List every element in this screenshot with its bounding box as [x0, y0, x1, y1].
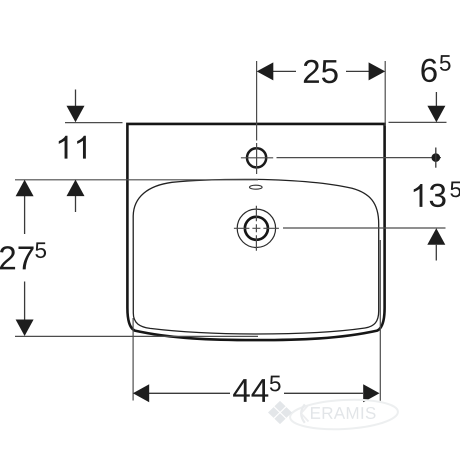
label 13 sup 5	[450, 182, 460, 198]
terminator dot tick	[435, 148, 437, 168]
drain outer circle	[237, 209, 275, 247]
dim 6.5 arrow down	[435, 92, 437, 107]
overflow slot	[250, 185, 263, 189]
terminator dot	[432, 153, 441, 162]
bottom extension line (dim 27.5)	[15, 335, 258, 337]
watermark ellipse swoosh	[289, 397, 398, 432]
drain center mark horizontal	[234, 227, 279, 229]
dim 25 arrow left	[257, 62, 274, 80]
dim 27.5 arrow down	[24, 282, 26, 321]
faucet crosshair horizontal	[241, 157, 273, 159]
bowl rim extension line left	[15, 179, 258, 181]
drain center mark vertical	[255, 206, 257, 251]
label 44 sup 5	[270, 376, 281, 392]
dim 44.5 dimension line	[134, 392, 363, 394]
drain inner circle	[245, 217, 268, 240]
faucet centerline vertical (also ext line of dim 25)	[256, 61, 258, 174]
label 13	[414, 184, 446, 208]
label 44	[233, 379, 268, 402]
dim 25 dimension line	[258, 70, 384, 72]
dim 13.5 arrow up	[435, 245, 437, 261]
dim 25 extension line right (basin right edge)	[384, 61, 386, 126]
faucet line to dot (dim 6.5 / 13.5 terminator)	[277, 157, 442, 159]
top edge extension line right	[389, 121, 447, 123]
dim 44.5 extension line right	[379, 240, 381, 401]
dim 25 arrow right	[369, 62, 386, 80]
basin bowl outline	[133, 179, 379, 334]
label 27 sup 5	[35, 242, 46, 258]
label 6 sup 5	[440, 55, 451, 71]
dim 27.5 arrow up	[24, 196, 26, 234]
label 6	[421, 59, 436, 83]
drain line right (dim 13.5)	[283, 227, 446, 229]
label 11	[59, 136, 86, 159]
dim 44.5 arrow right	[363, 384, 379, 402]
washbasin outer outline	[127, 124, 384, 340]
faucet hole	[247, 148, 266, 167]
label 25	[304, 60, 338, 84]
watermark text ERAMIS	[311, 407, 376, 419]
dim 11 arrow up	[75, 196, 77, 213]
watermark K paren stroke	[301, 404, 305, 423]
dim 11 arrow down	[75, 90, 77, 108]
top edge extension line left	[65, 122, 123, 124]
dim 44.5 extension line left	[132, 318, 134, 401]
dim 44.5 arrow left	[133, 384, 149, 402]
watermark diamond logo	[268, 401, 292, 424]
label 27	[0, 246, 34, 269]
